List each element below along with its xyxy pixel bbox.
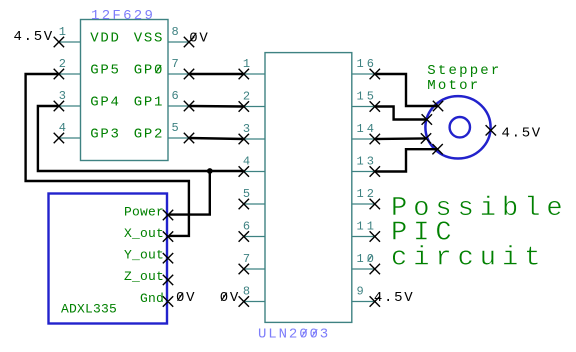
svg-text:14: 14 (357, 122, 378, 136)
svg-text:Stepper: Stepper (427, 63, 501, 79)
svg-text:8: 8 (243, 285, 253, 299)
svg-text:11: 11 (357, 220, 378, 234)
svg-text:Power: Power (124, 204, 164, 219)
svg-text:9: 9 (357, 285, 367, 299)
svg-text:VSS: VSS (134, 31, 164, 47)
svg-text:ULN2003: ULN2003 (258, 327, 330, 343)
svg-text:15: 15 (357, 90, 378, 104)
svg-text:8: 8 (172, 25, 182, 39)
svg-text:GP0: GP0 (134, 63, 164, 79)
svg-text:X_out: X_out (124, 226, 164, 241)
svg-text:10: 10 (357, 252, 378, 266)
svg-text:GP2: GP2 (134, 127, 164, 143)
svg-text:12: 12 (357, 187, 378, 201)
svg-text:GP4: GP4 (90, 95, 120, 111)
svg-text:ADXL335: ADXL335 (61, 301, 117, 316)
svg-text:Motor: Motor (427, 78, 480, 94)
svg-text:3: 3 (59, 89, 69, 103)
svg-text:Gnd: Gnd (140, 291, 164, 306)
svg-text:GP3: GP3 (90, 127, 120, 143)
svg-text:7: 7 (243, 252, 253, 266)
svg-text:5: 5 (172, 121, 182, 135)
svg-text:4.5V: 4.5V (14, 29, 54, 45)
svg-text:4.5V: 4.5V (502, 125, 542, 141)
svg-text:16: 16 (357, 57, 378, 71)
svg-text:circuit: circuit (391, 243, 546, 273)
svg-text:5: 5 (243, 187, 253, 201)
svg-text:GP5: GP5 (90, 63, 120, 79)
svg-text:4: 4 (243, 155, 253, 169)
svg-text:2: 2 (243, 90, 253, 104)
svg-text:4.5V: 4.5V (374, 290, 414, 306)
svg-text:VDD: VDD (90, 31, 120, 47)
svg-text:6: 6 (172, 89, 182, 103)
svg-text:7: 7 (172, 57, 182, 71)
svg-text:1: 1 (243, 57, 253, 71)
svg-text:4: 4 (59, 121, 69, 135)
svg-text:6: 6 (243, 220, 253, 234)
svg-text:3: 3 (243, 122, 253, 136)
svg-text:2: 2 (59, 57, 69, 71)
svg-text:GP1: GP1 (134, 95, 164, 111)
svg-text:12F629: 12F629 (91, 8, 155, 24)
svg-text:Y_out: Y_out (124, 248, 164, 263)
svg-text:Z_out: Z_out (124, 269, 164, 284)
svg-text:1: 1 (59, 25, 69, 39)
svg-text:13: 13 (357, 155, 378, 169)
